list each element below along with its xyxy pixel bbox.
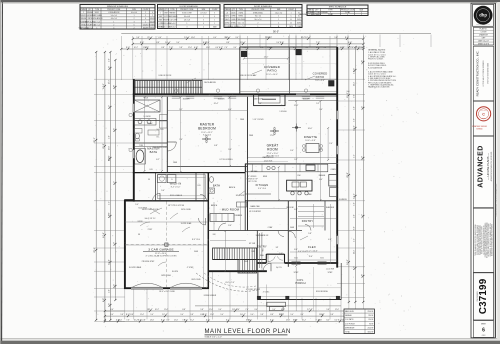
porch bottom edge bbox=[258, 288, 341, 300]
svg-text:DINETTE: DINETTE bbox=[304, 135, 317, 139]
svg-text:2868: 2868 bbox=[173, 162, 177, 164]
client box READY CONSTRUCTION bbox=[473, 46, 493, 101]
table T2 (DOOR SCHEDULE) bbox=[157, 5, 220, 29]
svg-text:10'-6": 10'-6" bbox=[308, 128, 313, 130]
svg-text:OF 8: OF 8 bbox=[482, 335, 486, 337]
flex room bottom wall / house front bbox=[257, 262, 338, 264]
left wall step to garage bbox=[124, 199, 134, 201]
svg-text:16070: 16070 bbox=[225, 19, 229, 21]
room label ENTRY bbox=[257, 245, 267, 249]
svg-text:DOOR SCHEDULE: DOOR SCHEDULE bbox=[254, 6, 273, 8]
svg-text:11'-4": 11'-4" bbox=[109, 157, 111, 162]
svg-text:17'-4": 17'-4" bbox=[103, 232, 105, 238]
kitchen north line bbox=[245, 163, 337, 165]
svg-text:9'-0" CLG: 9'-0" CLG bbox=[258, 188, 267, 190]
svg-text:2: 2 bbox=[145, 12, 146, 14]
svg-text:3050SH: 3050SH bbox=[143, 27, 149, 29]
svg-text:12'-0": 12'-0" bbox=[188, 47, 193, 49]
svg-text:2868: 2868 bbox=[159, 20, 163, 22]
svg-text:13'-2": 13'-2" bbox=[353, 193, 355, 199]
svg-text:1: 1 bbox=[214, 23, 215, 25]
svg-text:2: 2 bbox=[134, 27, 135, 29]
svg-text:9'-6": 9'-6" bbox=[258, 103, 262, 105]
svg-text:10'-2": 10'-2" bbox=[302, 320, 307, 322]
svg-text:9'-4": 9'-4" bbox=[228, 149, 232, 151]
svg-text:FLOOR DRAIN: FLOOR DRAIN bbox=[129, 266, 142, 269]
svg-text:UP 14R: UP 14R bbox=[249, 243, 256, 245]
svg-text:1: 1 bbox=[96, 27, 97, 29]
svg-text:9070: 9070 bbox=[297, 19, 301, 21]
svg-text:SLOPE SLAB: SLOPE SLAB bbox=[181, 222, 192, 225]
svg-text:14'-0": 14'-0" bbox=[103, 83, 105, 89]
svg-text:12'-0": 12'-0" bbox=[118, 320, 123, 322]
svg-text:3'-4": 3'-4" bbox=[235, 37, 239, 39]
bottom extension lines bbox=[105, 272, 363, 320]
svg-text:STOR: STOR bbox=[138, 221, 144, 223]
svg-text:PRODUCT CODE: PRODUCT CODE bbox=[107, 9, 120, 11]
svg-text:5'-8": 5'-8" bbox=[120, 314, 124, 316]
svg-text:12'-6": 12'-6" bbox=[347, 259, 349, 265]
room label MASTER BATH bbox=[147, 147, 159, 154]
svg-text:6: 6 bbox=[134, 24, 135, 26]
right extension lines bbox=[337, 47, 365, 297]
svg-text:5'-8": 5'-8" bbox=[354, 118, 356, 122]
dinette fan symbol bbox=[292, 124, 301, 132]
svg-text:2'-8": 2'-8" bbox=[142, 320, 146, 322]
svg-text:11'-4": 11'-4" bbox=[280, 314, 285, 316]
svg-text:B: B bbox=[291, 19, 292, 21]
svg-text:2: 2 bbox=[145, 21, 146, 23]
patio post 2 bbox=[296, 49, 301, 54]
svg-text:6: 6 bbox=[482, 328, 485, 334]
svg-text:5'-0": 5'-0" bbox=[272, 309, 276, 311]
master bath south wall bbox=[134, 142, 168, 144]
svg-text:LVT FLOORING: LVT FLOORING bbox=[219, 159, 233, 161]
svg-text:8'-8": 8'-8" bbox=[270, 314, 274, 316]
kitchen west wall bbox=[244, 164, 246, 231]
main exterior top wall with window band bbox=[133, 94, 337, 100]
svg-text:3'-6": 3'-6" bbox=[228, 225, 232, 227]
svg-text:10'-2": 10'-2" bbox=[134, 47, 139, 49]
room label COVERED PATIO right bbox=[313, 72, 328, 83]
svg-text:2: 2 bbox=[257, 22, 258, 24]
kitchen island with sink and stools bbox=[287, 180, 312, 195]
svg-text:7'-6": 7'-6" bbox=[179, 139, 183, 141]
bottom wall center section bbox=[208, 270, 267, 272]
svg-text:STEP: STEP bbox=[328, 272, 333, 274]
table T3 (DOOR SCHEDULE) bbox=[224, 5, 302, 28]
svg-text:5'-8": 5'-8" bbox=[308, 233, 312, 235]
interior dim chains bbox=[125, 96, 337, 272]
svg-text:STEEL INSUL: STEEL INSUL bbox=[253, 12, 263, 14]
svg-text:VINYL: VINYL bbox=[150, 27, 155, 29]
fireplace bump bbox=[254, 94, 285, 105]
svg-text:B: B bbox=[278, 26, 279, 28]
svg-text:9'-0" CLG: 9'-0" CLG bbox=[298, 251, 306, 253]
svg-text:4: 4 bbox=[214, 16, 215, 18]
svg-text:3'-0": 3'-0" bbox=[254, 309, 258, 311]
svg-text:VINYL: VINYL bbox=[95, 12, 100, 14]
svg-text:SYMBOL: SYMBOL bbox=[157, 9, 164, 11]
svg-text:TYPE: TYPE bbox=[95, 9, 99, 11]
svg-text:TILE SURROUND: TILE SURROUND bbox=[153, 147, 168, 149]
svg-text:6'-0": 6'-0" bbox=[242, 47, 246, 49]
svg-text:11'-4": 11'-4" bbox=[143, 47, 148, 49]
svg-text:COUNT: COUNT bbox=[143, 9, 149, 11]
svg-text:2x6: 2x6 bbox=[347, 91, 350, 93]
svg-text:BATH: BATH bbox=[150, 150, 158, 154]
svg-text:8070 OVHD: 8070 OVHD bbox=[191, 279, 201, 281]
svg-text:EGRESS: EGRESS bbox=[149, 24, 155, 26]
svg-text:2-LAV: 2-LAV bbox=[148, 122, 154, 125]
svg-text:3: 3 bbox=[134, 21, 135, 23]
page border top faint bbox=[2, 2, 496, 4]
logo dhp box bbox=[473, 4, 494, 26]
svg-text:C37199: C37199 bbox=[478, 278, 489, 314]
svg-text:3050: 3050 bbox=[294, 258, 298, 260]
door arc entry front bbox=[263, 263, 271, 271]
svg-text:9'-0": 9'-0" bbox=[323, 47, 327, 49]
svg-text:PROVIDE STEP: PROVIDE STEP bbox=[142, 261, 155, 263]
svg-text:SOLID CORE: SOLID CORE bbox=[182, 13, 192, 15]
master bath extra fixtures bbox=[134, 115, 168, 147]
svg-text:3: 3 bbox=[214, 13, 215, 15]
svg-text:8'-2": 8'-2" bbox=[319, 149, 323, 151]
plan number box C37199 bbox=[473, 273, 493, 320]
svg-text:9'-0": 9'-0" bbox=[218, 309, 222, 311]
svg-text:5'-8": 5'-8" bbox=[361, 60, 363, 65]
svg-text:11'-4": 11'-4" bbox=[269, 47, 274, 49]
walk-in band top wall bbox=[133, 172, 245, 174]
svg-text:SHELVES: SHELVES bbox=[326, 207, 335, 209]
svg-text:1: 1 bbox=[113, 21, 114, 23]
svg-text:9'-0" x 9'-0": 9'-0" x 9'-0" bbox=[315, 80, 325, 82]
svg-text:5050XO: 5050XO bbox=[150, 18, 156, 20]
svg-text:2: 2 bbox=[203, 27, 204, 29]
svg-text:4'-6": 4'-6" bbox=[341, 47, 345, 49]
svg-text:18'-0" x 8'-0" OVHD: 18'-0" x 8'-0" OVHD bbox=[159, 291, 175, 293]
room label COV PORCH bbox=[295, 278, 305, 285]
svg-text:RANGE: RANGE bbox=[319, 174, 326, 177]
svg-text:5'-8": 5'-8" bbox=[260, 314, 264, 316]
svg-text:12'-4": 12'-4" bbox=[294, 105, 299, 107]
svg-text:11'-4": 11'-4" bbox=[354, 82, 356, 87]
svg-text:2: 2 bbox=[214, 20, 215, 22]
room label BATH bbox=[213, 185, 220, 188]
svg-text:2-8 x 6-8: 2-8 x 6-8 bbox=[169, 27, 175, 29]
svg-text:2: 2 bbox=[278, 16, 279, 18]
svg-text:9'-0": 9'-0" bbox=[206, 42, 210, 44]
svg-text:42" UPPERS: 42" UPPERS bbox=[248, 176, 257, 178]
garage top wall bbox=[125, 200, 209, 202]
svg-text:3: 3 bbox=[145, 15, 146, 17]
dimension lines left bbox=[94, 51, 116, 321]
svg-text:3050SH: 3050SH bbox=[218, 99, 225, 101]
svg-text:2-8 x 6-8: 2-8 x 6-8 bbox=[200, 13, 206, 15]
svg-text:6'-0": 6'-0" bbox=[326, 320, 330, 322]
svg-text:TYPE: TYPE bbox=[328, 10, 332, 12]
ceiling fan master bedroom bbox=[202, 135, 211, 143]
svg-text:9070: 9070 bbox=[289, 26, 293, 28]
porch right edge bbox=[340, 263, 342, 300]
svg-text:5 1/4" CROWN: 5 1/4" CROWN bbox=[253, 119, 265, 121]
svg-text:5-0 x 5-0: 5-0 x 5-0 bbox=[111, 15, 117, 17]
svg-text:2868: 2868 bbox=[240, 119, 244, 121]
svg-text:BENCH: BENCH bbox=[229, 187, 236, 189]
scan edge right strip bbox=[497, 2, 500, 340]
svg-text:17'-8": 17'-8" bbox=[270, 135, 275, 137]
left exterior wall bbox=[133, 79, 135, 201]
svg-text:96'-0": 96'-0" bbox=[273, 31, 279, 34]
scan edge bottom band bbox=[0, 338, 500, 344]
svg-text:3068: 3068 bbox=[213, 27, 217, 29]
svg-text:BENCH: BENCH bbox=[211, 205, 218, 207]
svg-text:2868: 2868 bbox=[164, 13, 168, 15]
svg-text:3050SH: 3050SH bbox=[87, 12, 93, 14]
kitchen counter band bbox=[246, 164, 328, 172]
svg-text:9070 OVHD: 9070 OVHD bbox=[181, 209, 191, 211]
svg-text:9'-0": 9'-0" bbox=[354, 94, 356, 98]
svg-text:12'-0": 12'-0" bbox=[335, 309, 340, 311]
mud room east wall bbox=[247, 201, 249, 231]
svg-text:12'-0": 12'-0" bbox=[286, 320, 291, 322]
dimension lines bottom bbox=[104, 306, 366, 323]
svg-text:4'-6": 4'-6" bbox=[354, 238, 356, 242]
svg-text:DECK ABOVE: DECK ABOVE bbox=[204, 81, 216, 84]
entry railing lines bbox=[260, 233, 265, 268]
svg-text:2: 2 bbox=[330, 12, 331, 14]
garage interior details bbox=[126, 202, 208, 288]
svg-text:2-3050SH: 2-3050SH bbox=[279, 111, 287, 113]
svg-text:SYMBOL: SYMBOL bbox=[307, 10, 314, 12]
svg-text:MAIN LEVEL FLOOR PLAN: MAIN LEVEL FLOOR PLAN bbox=[205, 329, 291, 335]
svg-text:9'-0": 9'-0" bbox=[110, 314, 114, 316]
svg-text:5'-8": 5'-8" bbox=[354, 202, 356, 206]
svg-text:14'-6": 14'-6" bbox=[206, 47, 211, 49]
svg-text:SIZE: SIZE bbox=[277, 9, 281, 11]
svg-text:7'-4": 7'-4" bbox=[361, 106, 363, 111]
svg-text:5'-8": 5'-8" bbox=[305, 47, 309, 49]
svg-text:8'-0" x 7'-0": 8'-0" x 7'-0" bbox=[225, 282, 234, 284]
svg-text:3-0 x 6-8: 3-0 x 6-8 bbox=[169, 23, 175, 25]
room label DINETTE bbox=[304, 135, 317, 142]
svg-text:16070: 16070 bbox=[231, 12, 235, 14]
svg-text:3: 3 bbox=[113, 27, 114, 29]
svg-text:R-10 SLAB EDGE: R-10 SLAB EDGE bbox=[368, 66, 383, 69]
svg-text:5'-0": 5'-0" bbox=[354, 106, 356, 110]
walk-in/bath divider walls bbox=[156, 173, 205, 201]
door arc master bedroom bbox=[167, 142, 176, 151]
left extension lines bbox=[94, 79, 133, 321]
svg-text:C: C bbox=[482, 112, 485, 116]
svg-text:5'-8": 5'-8" bbox=[326, 309, 330, 311]
extra dim texts row fill bbox=[109, 37, 363, 322]
svg-text:3'-0": 3'-0" bbox=[290, 150, 294, 152]
garage left exterior wall bbox=[124, 200, 126, 289]
svg-text:CROWN @ TOP: CROWN @ TOP bbox=[246, 178, 257, 180]
room label KITCHEN bbox=[256, 183, 269, 190]
porch posts bbox=[257, 296, 339, 299]
porch left edge bbox=[257, 271, 259, 299]
svg-text:2104 SF: 2104 SF bbox=[368, 311, 374, 313]
svg-text:COUNT: COUNT bbox=[288, 9, 294, 11]
room label MASTER BEDROOM bbox=[198, 123, 216, 137]
svg-text:36" REF: 36" REF bbox=[251, 171, 259, 173]
svg-text:5'-0": 5'-0" bbox=[176, 42, 180, 44]
wall oven / fridge column bbox=[329, 175, 337, 197]
walk-in closet shelving bbox=[158, 175, 206, 199]
garage service door arc bbox=[199, 218, 206, 225]
svg-text:DOOR SCHEDULE: DOOR SCHEDULE bbox=[180, 6, 199, 8]
svg-text:6'-6": 6'-6" bbox=[113, 128, 115, 133]
svg-text:10'-2": 10'-2" bbox=[281, 309, 286, 311]
page border left bbox=[0, 0, 2, 344]
door arc bath2 bbox=[200, 194, 207, 201]
svg-text:6'-2": 6'-2" bbox=[361, 214, 363, 219]
svg-text:5'-6": 5'-6" bbox=[319, 109, 323, 111]
svg-text:STEEL: STEEL bbox=[238, 16, 243, 18]
svg-text:SLOPE: SLOPE bbox=[172, 271, 179, 273]
svg-text:7'-6": 7'-6" bbox=[224, 47, 228, 49]
hall south wall bbox=[208, 230, 302, 232]
svg-text:14'-6": 14'-6" bbox=[150, 320, 155, 322]
svg-text:— HOUSE PLANS —: — HOUSE PLANS — bbox=[486, 153, 490, 180]
svg-text:7'-6": 7'-6" bbox=[350, 47, 354, 49]
window tick symbols on walls bbox=[133, 97, 338, 244]
svg-text:KITCHEN: KITCHEN bbox=[256, 183, 269, 187]
svg-text:4'-6": 4'-6" bbox=[158, 37, 162, 39]
ceiling fan great room bbox=[270, 127, 279, 135]
svg-text:10'-2": 10'-2" bbox=[246, 320, 251, 322]
svg-text:4'-8": 4'-8" bbox=[113, 85, 115, 90]
svg-text:3'-0": 3'-0" bbox=[300, 314, 304, 316]
driveway dashed arcs bbox=[196, 273, 258, 291]
svg-text:16-0 x 7-0: 16-0 x 7-0 bbox=[254, 19, 261, 21]
entry second arc bbox=[277, 256, 283, 260]
svg-text:CUBBIES: CUBBIES bbox=[234, 215, 243, 217]
svg-text:8'-9" CLG: 8'-9" CLG bbox=[192, 239, 200, 241]
roof/step line across top of house bbox=[133, 78, 337, 80]
svg-text:12'-0": 12'-0" bbox=[264, 57, 269, 59]
sheet number box bbox=[473, 321, 493, 338]
svg-text:9070: 9070 bbox=[225, 16, 229, 18]
porch annotations bbox=[263, 267, 335, 311]
svg-text:3: 3 bbox=[186, 27, 187, 29]
svg-text:12'-0": 12'-0" bbox=[209, 309, 214, 311]
patio post 1 bbox=[241, 51, 246, 56]
svg-text:4'-6": 4'-6" bbox=[215, 47, 219, 49]
svg-text:6'-4": 6'-4" bbox=[108, 66, 110, 71]
svg-text:5068: 5068 bbox=[290, 227, 294, 229]
svg-text:6'-8": 6'-8" bbox=[214, 145, 218, 147]
svg-text:4'-6": 4'-6" bbox=[236, 309, 240, 311]
svg-text:BEDROOM: BEDROOM bbox=[198, 126, 216, 130]
svg-text:4'-6": 4'-6" bbox=[110, 309, 114, 311]
svg-text:11'-4": 11'-4" bbox=[210, 314, 215, 316]
svg-text:TYPE: TYPE bbox=[239, 9, 243, 11]
door arc walk-in closet bbox=[153, 193, 161, 201]
svg-text:R-13 INSUL: R-13 INSUL bbox=[138, 208, 147, 210]
porch steps bbox=[267, 302, 286, 310]
svg-text:8'-8": 8'-8" bbox=[130, 314, 134, 316]
svg-text:16-0 x 7-0: 16-0 x 7-0 bbox=[237, 26, 244, 28]
svg-text:BASE CAB: BASE CAB bbox=[251, 205, 261, 208]
svg-text:6: 6 bbox=[145, 18, 146, 20]
svg-text:3 CAR GARAGE: 3 CAR GARAGE bbox=[148, 248, 174, 252]
svg-text:2'-4": 2'-4" bbox=[329, 143, 333, 145]
svg-text:6'-4": 6'-4" bbox=[319, 179, 323, 181]
svg-text:8'-6": 8'-6" bbox=[353, 266, 355, 271]
svg-text:7'-6": 7'-6" bbox=[126, 320, 130, 322]
svg-text:EGRESS: EGRESS bbox=[339, 199, 347, 201]
svg-text:3'-0": 3'-0" bbox=[233, 47, 237, 49]
svg-text:9'-0": 9'-0" bbox=[361, 156, 363, 161]
svg-text:1: 1 bbox=[203, 16, 204, 18]
master bedroom west wall bbox=[166, 97, 168, 173]
covered patio left edge bbox=[239, 47, 241, 94]
disclaimer fine print box bbox=[473, 208, 493, 272]
svg-text:3'-0": 3'-0" bbox=[109, 135, 111, 139]
svg-text:5'-0": 5'-0" bbox=[279, 253, 283, 255]
svg-text:4: 4 bbox=[203, 23, 204, 25]
svg-text:2: 2 bbox=[113, 24, 114, 26]
svg-text:W: W bbox=[148, 179, 150, 181]
covered patio inner edge line bbox=[240, 91, 337, 93]
svg-text:SIZE: SIZE bbox=[360, 10, 364, 12]
svg-text:3068: 3068 bbox=[194, 251, 198, 253]
svg-text:ROOM: ROOM bbox=[267, 147, 278, 151]
misc small marks bbox=[129, 70, 315, 240]
svg-text:5-0 x 5-0: 5-0 x 5-0 bbox=[87, 27, 93, 29]
svg-text:1: 1 bbox=[278, 19, 279, 21]
svg-text:STEP: STEP bbox=[294, 272, 299, 274]
svg-text:12'-0": 12'-0" bbox=[109, 145, 111, 150]
svg-text:3'-4": 3'-4" bbox=[166, 320, 170, 322]
svg-text:1: 1 bbox=[291, 12, 292, 14]
svg-text:SCALE: 1/4" = 1'-0": SCALE: 1/4" = 1'-0" bbox=[205, 336, 223, 339]
svg-text:10'-2": 10'-2" bbox=[190, 320, 195, 322]
svg-text:5'-2": 5'-2" bbox=[316, 103, 320, 105]
svg-text:PORCH: PORCH bbox=[295, 281, 305, 285]
dimension extension lines from top walls bbox=[121, 35, 431, 81]
svg-text:BATH: BATH bbox=[213, 185, 220, 188]
room label GREAT ROOM bbox=[266, 144, 279, 158]
svg-text:20'-8": 20'-8" bbox=[347, 172, 349, 178]
svg-text:2104 SF: 2104 SF bbox=[368, 327, 374, 329]
room label MUD ROOM bbox=[222, 208, 240, 212]
garage bottom exterior wall bbox=[124, 287, 209, 289]
svg-text:10'-2": 10'-2" bbox=[155, 309, 160, 311]
svg-text:5'-6": 5'-6" bbox=[108, 303, 110, 308]
svg-text:4'-6": 4'-6" bbox=[354, 154, 356, 158]
flex window marks on front wall bbox=[292, 258, 327, 265]
mud room lockers and bench bbox=[210, 202, 247, 222]
entry nook front wall with door bbox=[266, 254, 284, 262]
svg-text:924 SF: 924 SF bbox=[368, 315, 373, 317]
svg-text:STEEL INSUL: STEEL INSUL bbox=[236, 19, 246, 21]
svg-text:6068 SLDR: 6068 SLDR bbox=[253, 99, 263, 101]
svg-text:3050SH: 3050SH bbox=[183, 99, 190, 101]
svg-text:8'-8": 8'-8" bbox=[200, 314, 204, 316]
svg-text:10'-6" x 9'-8": 10'-6" x 9'-8" bbox=[305, 140, 316, 142]
svg-text:9-0 CLG: 9-0 CLG bbox=[157, 129, 164, 131]
basement stair hatch bbox=[213, 248, 267, 273]
svg-text:SIZE: SIZE bbox=[132, 9, 136, 11]
pantry west wall bbox=[296, 201, 298, 231]
svg-text:5'-8": 5'-8" bbox=[136, 37, 140, 39]
svg-text:14'-6": 14'-6" bbox=[191, 37, 196, 39]
svg-text:3'-0": 3'-0" bbox=[354, 214, 356, 218]
